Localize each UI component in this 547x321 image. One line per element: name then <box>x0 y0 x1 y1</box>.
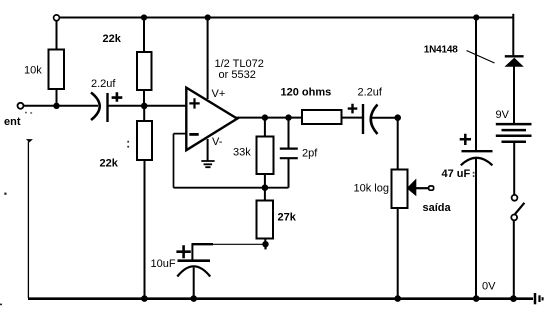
capacitor 10uF straight plate <box>178 259 211 262</box>
wire node to 22k lower <box>143 106 145 121</box>
svg-text:2.2uf: 2.2uf <box>358 87 383 99</box>
wire 27k to node <box>264 239 266 245</box>
wire 22k top to node <box>143 90 145 106</box>
wire C1 to op-amp <box>109 105 187 107</box>
wire diode to battery <box>513 67 515 124</box>
op-amp U1 triangle <box>186 88 237 151</box>
svg-text:10uF: 10uF <box>151 258 176 270</box>
node rail 47uF <box>473 14 479 20</box>
node 47uF bottom <box>473 295 480 302</box>
wire ent to C1 <box>24 105 98 107</box>
svg-text:2pf: 2pf <box>302 147 318 159</box>
svg-text:27k: 27k <box>278 212 297 224</box>
callout line 1N4148 <box>467 51 495 64</box>
wire feedback bottom <box>174 187 289 189</box>
capacitor 2pf plates <box>280 149 298 159</box>
diode D1 cathode bar <box>505 55 524 57</box>
wire op-amp output <box>236 117 302 119</box>
wire 33k to feedback node <box>264 174 266 188</box>
node rail V+ <box>205 14 211 20</box>
wire 27k node to 10uF thin part <box>213 243 265 245</box>
node feedback <box>262 184 269 191</box>
capacitor 2.2uf output straight plate <box>362 104 364 134</box>
wire rail to 47uF <box>475 18 477 151</box>
artifact dots near ent <box>25 112 32 114</box>
svg-text:22k: 22k <box>103 33 122 45</box>
artifact marks left edge <box>0 193 7 306</box>
terminal circle top-left <box>54 15 60 21</box>
resistor 22k top <box>137 52 152 90</box>
node 22k bottom rail <box>141 295 148 302</box>
node cap out <box>141 103 148 110</box>
capacitor 2.2uf input curved plate <box>91 93 100 121</box>
node 10uF bottom <box>190 295 197 302</box>
svg-text:ent: ent <box>4 116 21 128</box>
potentiometer 10k log body <box>392 170 408 209</box>
wire corner to diode <box>512 18 514 56</box>
wire 120 ohms to C3 <box>342 117 363 119</box>
switch contact top <box>512 195 518 201</box>
wire stub 10uF <box>191 244 193 259</box>
wire pot to bottom rail <box>397 208 399 298</box>
pot wiper arrow <box>407 179 417 197</box>
wire C3 to pot node <box>372 117 398 119</box>
resistor 10k <box>49 50 65 90</box>
plus sign 47uF <box>460 134 471 145</box>
switch lever <box>515 203 525 215</box>
wire top-right corner nub <box>512 14 514 18</box>
wire 47uF to bottom rail <box>475 158 477 299</box>
svg-text:9V: 9V <box>496 109 510 121</box>
svg-text:V-: V- <box>212 136 223 148</box>
capacitor 10uF curved plate <box>177 266 210 276</box>
wire circle to R 10k <box>56 21 58 50</box>
switch contact bottom <box>511 215 517 221</box>
node rail 22k <box>141 14 147 20</box>
arrow input shield <box>26 139 33 142</box>
svg-text:1N4148: 1N4148 <box>424 45 458 56</box>
capacitor 47uF straight plate <box>462 150 493 152</box>
artifact colon 47uF <box>473 172 475 177</box>
node input <box>53 103 59 109</box>
node switch bottom <box>510 295 517 302</box>
plus sign 10uF <box>176 245 190 258</box>
wire feedback node to 27k <box>264 188 266 201</box>
diode D1 triangle <box>505 58 524 67</box>
resistor 27k <box>257 201 274 239</box>
svg-text:or 5532: or 5532 <box>219 69 256 81</box>
capacitor 47uF curved plate <box>461 158 493 166</box>
wire rail to 22k top <box>143 18 145 53</box>
ground under op-amp <box>201 161 214 167</box>
wire battery to switch <box>513 143 515 195</box>
wire wiper <box>416 187 429 189</box>
svg-text:saída: saída <box>423 202 452 214</box>
artifact colon <box>127 141 129 148</box>
bottom rail <box>28 297 533 300</box>
wire V- <box>207 139 209 161</box>
wire switch to bottom rail <box>513 221 515 299</box>
svg-text:47 uF: 47 uF <box>442 168 471 180</box>
wire node to 2pf <box>288 118 290 148</box>
chassis ground right <box>535 293 543 304</box>
svg-text:33k: 33k <box>233 147 251 159</box>
wire node to pot <box>397 118 399 170</box>
op-amp plus input sign <box>189 98 199 108</box>
wire minus input feedback left <box>174 134 187 188</box>
wire 27k node to 10uF thick part <box>192 243 214 245</box>
node output 2pf <box>285 114 291 120</box>
svg-text:2.2uf: 2.2uf <box>91 78 116 90</box>
svg-text:10k log: 10k log <box>354 183 389 195</box>
resistor 120 ohms <box>302 110 342 124</box>
wire V+ <box>207 18 209 100</box>
op-amp minus input sign <box>189 133 198 136</box>
wire 2pf to feedback <box>288 159 290 188</box>
svg-text:V+: V+ <box>212 88 226 100</box>
wire 22k lower to bottom rail <box>144 160 146 298</box>
svg-text:10k: 10k <box>24 65 42 77</box>
capacitor 2.2uf input straight plate <box>106 93 108 122</box>
node output 33k <box>262 114 268 120</box>
resistor 22k lower <box>137 121 152 160</box>
terminal circle ent <box>18 103 24 109</box>
wire input shield down <box>27 142 29 299</box>
plus sign C3 <box>348 104 358 114</box>
wire 10uF to bottom rail <box>193 268 195 299</box>
svg-text:0V: 0V <box>482 281 496 293</box>
svg-text:22k: 22k <box>100 158 119 170</box>
wire node to 33k <box>264 118 266 137</box>
terminal circle saida <box>429 186 434 190</box>
resistor 33k <box>257 137 274 175</box>
wire top rail <box>59 17 513 19</box>
battery 9V plates <box>496 124 532 142</box>
node 27k bottom <box>262 241 268 247</box>
wire 10k to input node <box>56 89 58 106</box>
capacitor 2.2uf output curved plate <box>371 105 378 135</box>
svg-text:120 ohms: 120 ohms <box>281 87 332 99</box>
node pot bottom <box>394 295 401 302</box>
node pot top <box>394 114 401 121</box>
plus sign C1 <box>112 92 123 102</box>
